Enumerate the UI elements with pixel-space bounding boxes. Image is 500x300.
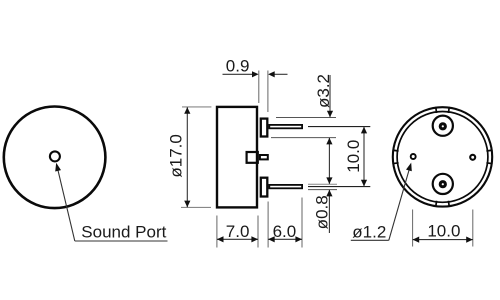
bottom pin center dot <box>439 180 447 188</box>
ext line left <box>258 71 260 104</box>
bottom pin circle <box>433 174 453 194</box>
top pin center dot <box>439 122 447 130</box>
sound port hole <box>50 151 60 161</box>
dim line <box>217 238 258 240</box>
ext line right <box>472 210 474 247</box>
ext line bottom <box>308 189 337 191</box>
svg-text:ø17.0: ø17.0 <box>167 134 186 177</box>
top pin circle <box>433 116 453 136</box>
left view: front face of buzzer <box>4 107 168 242</box>
dim line above <box>329 75 331 117</box>
dim line <box>268 238 302 240</box>
inner rim circle <box>397 111 488 202</box>
svg-text:ø3.2: ø3.2 <box>314 74 333 108</box>
dimension 10.0 pin spacing (between views) <box>308 127 370 187</box>
bottom pin base (stub) <box>261 178 268 197</box>
svg-text:ø1.2: ø1.2 <box>352 222 386 241</box>
dim line <box>363 127 365 187</box>
ext line left <box>216 216 218 248</box>
middle view: side view <box>217 107 302 207</box>
svg-text:10.0: 10.0 <box>344 140 363 173</box>
svg-text:ø0.8: ø0.8 <box>312 195 331 229</box>
dimension o17.0 <box>167 107 212 207</box>
rim notch ticks <box>392 107 492 207</box>
dimension 10.0 bottom (hole spacing) <box>413 210 473 247</box>
dimension 7.0 <box>217 216 258 248</box>
ext line right <box>267 71 269 113</box>
ext line top <box>276 117 336 119</box>
leader line to sound port <box>57 167 75 241</box>
dimension o0.8 <box>308 184 337 233</box>
dimension o1.2 leader <box>351 163 412 242</box>
ext line right <box>257 216 259 248</box>
right view: back face <box>392 107 492 207</box>
svg-text:Sound Port: Sound Port <box>81 223 166 242</box>
svg-text:7.0: 7.0 <box>226 222 250 241</box>
buzzer body rectangle <box>217 107 257 207</box>
ext line top <box>308 183 337 185</box>
top pin base (stub) <box>261 119 268 137</box>
ext line left <box>267 202 269 248</box>
dim line below shared with o0.8 <box>328 138 330 184</box>
ext line left <box>412 210 414 247</box>
dim tails <box>223 73 253 75</box>
top pin <box>269 125 302 128</box>
small right dot <box>470 155 475 160</box>
ext line top <box>182 106 211 108</box>
middle square boss <box>247 152 258 163</box>
ext line top from pin center <box>308 126 370 128</box>
ext line bottom <box>181 206 211 208</box>
bottom pin <box>269 185 302 188</box>
dimension o3.2 <box>271 74 336 184</box>
dim line below <box>328 190 330 233</box>
middle tab <box>260 155 268 159</box>
dimension 6.0 <box>268 198 302 248</box>
ext line bottom from pin center <box>308 186 370 188</box>
ext line right <box>301 198 303 248</box>
small hole o1.2 <box>411 154 416 159</box>
label underline <box>75 240 168 242</box>
dimension 0.9 <box>223 57 288 112</box>
dim line <box>186 107 188 207</box>
svg-text:10.0: 10.0 <box>427 221 460 240</box>
ext line bottom <box>271 137 336 139</box>
svg-text:0.9: 0.9 <box>226 57 250 76</box>
buzzer front outline circle <box>4 107 106 209</box>
dim line <box>413 239 473 241</box>
leader shelf underline <box>351 239 389 241</box>
svg-text:6.0: 6.0 <box>273 222 297 241</box>
outer case circle <box>393 107 492 206</box>
leader line <box>389 170 409 241</box>
leader arrowhead <box>55 163 61 172</box>
